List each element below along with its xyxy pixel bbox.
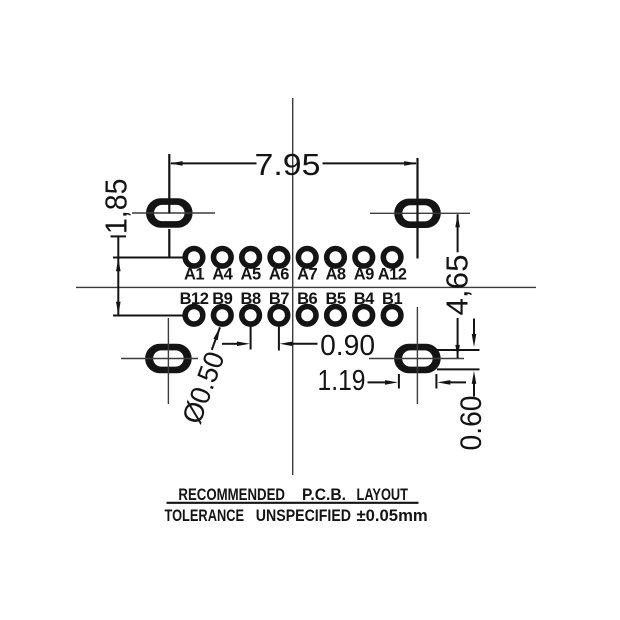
svg-text:RECOMMENDED: RECOMMENDED xyxy=(178,486,285,504)
svg-text:A9: A9 xyxy=(354,265,374,283)
svg-text:1.19: 1.19 xyxy=(318,365,366,397)
svg-text:B12: B12 xyxy=(180,290,209,308)
svg-text:±0.05mm: ±0.05mm xyxy=(357,507,428,525)
svg-text:A7: A7 xyxy=(297,265,317,283)
svg-text:B6: B6 xyxy=(297,290,317,308)
svg-text:B1: B1 xyxy=(382,290,402,308)
svg-text:1,85: 1,85 xyxy=(98,179,133,235)
svg-text:4,65: 4,65 xyxy=(440,255,475,316)
svg-text:A6: A6 xyxy=(269,265,289,283)
svg-text:7.95: 7.95 xyxy=(255,147,321,182)
svg-text:P.C.B.: P.C.B. xyxy=(302,486,346,504)
svg-text:B7: B7 xyxy=(269,290,289,308)
svg-text:B4: B4 xyxy=(354,290,375,308)
svg-text:B8: B8 xyxy=(241,290,261,308)
svg-text:B9: B9 xyxy=(212,290,232,308)
svg-text:UNSPECIFIED: UNSPECIFIED xyxy=(256,507,351,525)
svg-text:A1: A1 xyxy=(184,265,204,283)
svg-text:A12: A12 xyxy=(378,265,407,283)
svg-text:B5: B5 xyxy=(325,290,345,308)
svg-text:0.90: 0.90 xyxy=(320,330,375,362)
svg-text:A8: A8 xyxy=(325,265,345,283)
svg-text:0.60: 0.60 xyxy=(455,396,488,451)
svg-text:LAYOUT: LAYOUT xyxy=(357,486,409,504)
svg-text:A4: A4 xyxy=(212,265,233,283)
svg-text:TOLERANCE: TOLERANCE xyxy=(165,507,245,525)
svg-text:A5: A5 xyxy=(241,265,261,283)
